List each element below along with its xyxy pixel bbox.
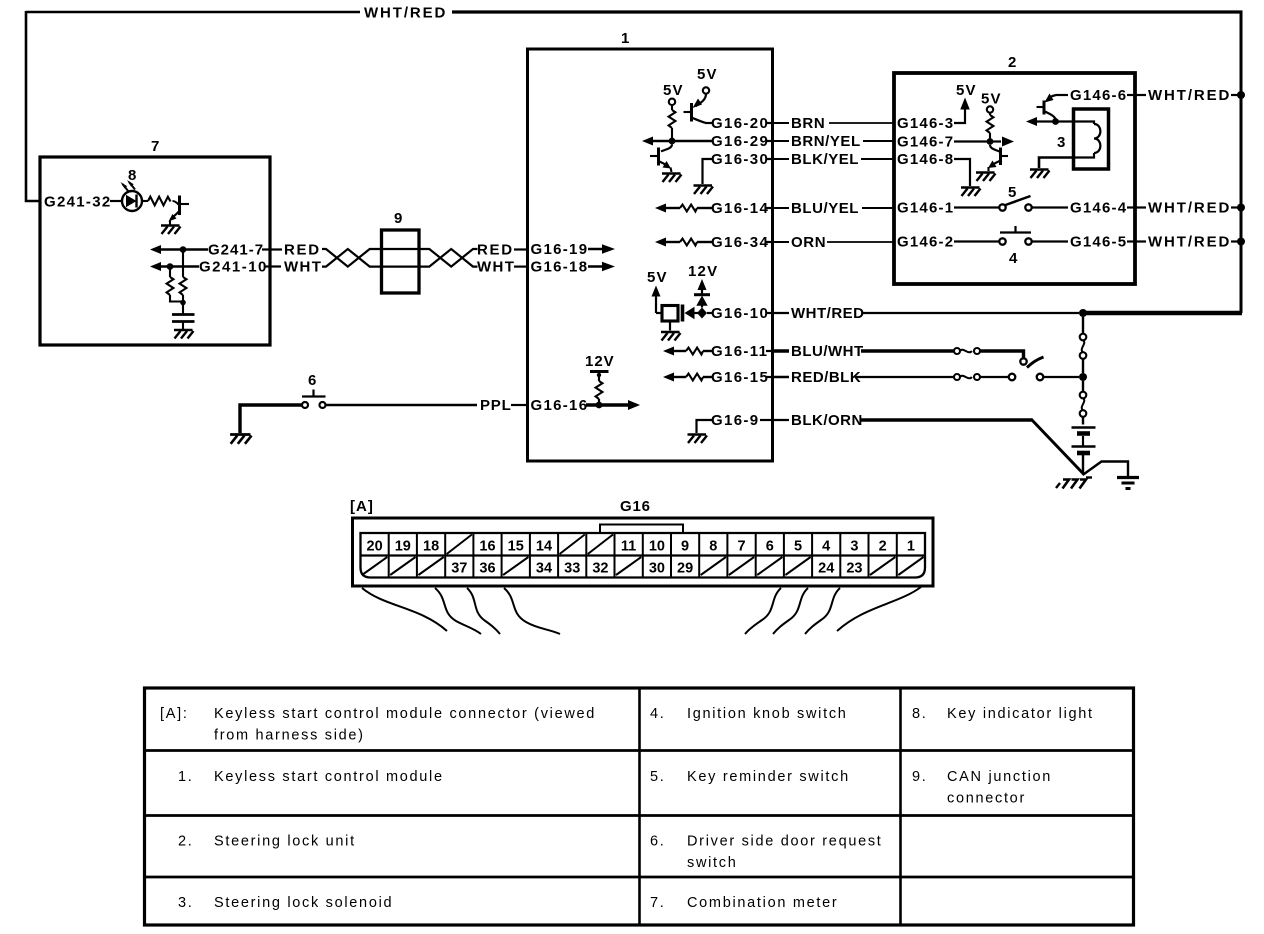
pin G16-20 xyxy=(705,122,712,124)
svg-text:9: 9 xyxy=(394,210,403,227)
svg-text:19: 19 xyxy=(395,539,411,555)
junction diamond G16-10 xyxy=(697,308,707,319)
wire BLK/ORN xyxy=(772,419,789,421)
steering lock solenoid box xyxy=(1074,109,1109,169)
junction dot bus (G146-5) xyxy=(1237,238,1245,246)
svg-text:7: 7 xyxy=(151,138,160,155)
transistor Q-meter xyxy=(173,201,179,205)
capacitor C1 (meter) xyxy=(182,303,184,315)
fusible link F2 xyxy=(1082,381,1084,392)
wire ORN xyxy=(772,241,789,243)
svg-text:37: 37 xyxy=(451,561,467,577)
svg-text:2.: 2. xyxy=(178,834,194,850)
svg-text:34: 34 xyxy=(536,561,552,577)
wire right-edge vertical bus WHT/RED xyxy=(1240,11,1243,314)
pin G16-34 xyxy=(655,238,666,247)
junction dot G241-10 xyxy=(167,263,174,270)
CAN junction connector box 9 xyxy=(382,230,420,293)
resistor R5 (G146-7 pullup) xyxy=(987,115,994,133)
ignition knob switch contact a xyxy=(1020,358,1026,364)
svg-text:G16-34: G16-34 xyxy=(711,234,769,251)
pin G241-7 arrow xyxy=(150,245,161,254)
svg-text:G241-10: G241-10 xyxy=(199,259,268,276)
svg-text:5V: 5V xyxy=(697,66,718,83)
svg-text:3.: 3. xyxy=(178,895,194,911)
wire WHT/RED thick to bus xyxy=(1083,311,1242,315)
svg-text:G16-11: G16-11 xyxy=(711,343,768,360)
svg-text:G16-9: G16-9 xyxy=(711,412,759,429)
wire left drop to combination meter xyxy=(26,11,40,201)
earth ground xyxy=(1117,476,1139,479)
transistor Q-b (G16-29) xyxy=(661,144,672,151)
transistor Q-d (G146-6) xyxy=(1047,95,1057,101)
connector G16 pin grid outline xyxy=(361,533,926,578)
connector G16 row divider xyxy=(361,554,926,556)
svg-text:8: 8 xyxy=(128,167,137,184)
wire RED/BLK to switch xyxy=(980,376,1009,378)
diode D2 (G16-10) xyxy=(681,305,685,322)
pin G16-14 xyxy=(655,204,666,213)
svg-text:PPL: PPL xyxy=(480,397,512,414)
svg-text:RED: RED xyxy=(284,242,321,259)
junction dot G146-7 xyxy=(987,138,994,145)
connector G16 harness wires xyxy=(362,588,447,631)
zener diode D3 (12V clamp) xyxy=(701,306,703,308)
ground (G16-30) xyxy=(694,186,714,195)
wire BLK/ORN diagonal to ground xyxy=(1031,419,1085,475)
junction dot bus (G146-4) xyxy=(1237,204,1245,212)
wire BRN/YEL xyxy=(772,140,789,142)
ground (photocoupler) xyxy=(669,321,671,331)
svg-text:30: 30 xyxy=(649,561,665,577)
ground (meter capacitor) xyxy=(174,330,194,339)
svg-text:WHT/RED: WHT/RED xyxy=(1148,200,1231,217)
svg-text:5V: 5V xyxy=(663,82,684,99)
svg-text:G16-29: G16-29 xyxy=(711,133,769,150)
svg-text:G16-18: G16-18 xyxy=(531,259,589,276)
svg-text:Combination meter: Combination meter xyxy=(687,895,838,911)
svg-text:3: 3 xyxy=(1057,134,1066,151)
svg-text:ORN: ORN xyxy=(791,234,826,251)
pin G146-6 xyxy=(1056,94,1068,96)
svg-text:G16: G16 xyxy=(620,498,651,515)
svg-text:15: 15 xyxy=(508,539,524,555)
svg-text:1: 1 xyxy=(621,30,630,47)
connector G16 outer shell xyxy=(353,518,934,586)
svg-text:BLK/YEL: BLK/YEL xyxy=(791,151,859,168)
ground (switch 6) xyxy=(230,435,251,444)
svg-text:RED/BLK: RED/BLK xyxy=(791,369,861,386)
svg-text:6.: 6. xyxy=(650,834,666,850)
svg-text:32: 32 xyxy=(592,561,608,577)
ground node (battery) xyxy=(1084,462,1128,478)
svg-text:Ignition knob switch: Ignition knob switch xyxy=(687,706,848,722)
resistor R3 (G16-16 pullup) xyxy=(596,381,603,399)
svg-text:12V: 12V xyxy=(585,353,615,370)
svg-text:Keyless start control module: Keyless start control module xyxy=(214,769,444,785)
key-off contact c xyxy=(1037,374,1044,381)
svg-text:G16-19: G16-19 xyxy=(531,241,589,258)
svg-text:12V: 12V xyxy=(688,263,718,280)
ground (solenoid) xyxy=(1030,170,1050,179)
svg-text:G16-10: G16-10 xyxy=(711,305,769,322)
svg-text:5V: 5V xyxy=(956,82,977,99)
svg-text:10: 10 xyxy=(649,539,665,555)
wire twisted pair WHT (lower) xyxy=(322,249,478,267)
solenoid feed arrow xyxy=(1026,117,1037,126)
ground (Q-b emitter) xyxy=(662,174,682,183)
key-off contact b xyxy=(1009,374,1016,381)
svg-text:G146-1: G146-1 xyxy=(897,200,954,217)
resistor R4 (G16-29 pullup) xyxy=(669,110,676,128)
svg-text:G146-4: G146-4 xyxy=(1070,200,1127,217)
svg-text:G146-8: G146-8 xyxy=(897,151,954,168)
pin G16-29 arrow xyxy=(642,137,653,146)
fusible link F1 xyxy=(1082,317,1084,334)
svg-text:24: 24 xyxy=(818,561,834,577)
svg-text:4: 4 xyxy=(1009,250,1018,267)
svg-text:G241-32: G241-32 xyxy=(44,194,111,211)
svg-text:18: 18 xyxy=(423,539,439,555)
junction dot G16-16 xyxy=(596,402,603,409)
connector G16 hatched cells bottom row xyxy=(362,557,387,575)
pin G241-10 arrow xyxy=(150,262,161,271)
pin G16-15 xyxy=(663,373,674,382)
junction dot meter RC xyxy=(180,300,186,306)
wire solenoid to ground xyxy=(1039,158,1074,169)
svg-text:WHT/RED: WHT/RED xyxy=(364,5,447,22)
svg-text:5: 5 xyxy=(1008,184,1017,201)
switch 6 contacts xyxy=(302,402,308,408)
svg-text:1.: 1. xyxy=(178,769,194,785)
junction dot RED/BLK bus xyxy=(1079,373,1087,381)
svg-text:33: 33 xyxy=(564,561,580,577)
svg-text:switch: switch xyxy=(687,855,738,871)
battery B1 xyxy=(1072,426,1096,429)
svg-text:9: 9 xyxy=(681,539,689,555)
svg-text:11: 11 xyxy=(621,539,636,555)
junction dot G16-29 xyxy=(669,138,676,145)
svg-text:[A]:: [A]: xyxy=(160,706,189,722)
svg-text:G16-16: G16-16 xyxy=(531,397,589,414)
svg-text:1: 1 xyxy=(907,539,915,555)
svg-text:G146-6: G146-6 xyxy=(1070,87,1127,104)
svg-text:4.: 4. xyxy=(650,706,666,722)
svg-text:7: 7 xyxy=(737,539,745,555)
wire BLU/YEL xyxy=(772,207,789,209)
wire BRN xyxy=(772,122,789,124)
ground (Q-c emitter) xyxy=(976,173,996,182)
wire switch 6 to PPL xyxy=(326,404,478,407)
svg-text:BLK/ORN: BLK/ORN xyxy=(791,412,863,429)
svg-text:Steering lock unit: Steering lock unit xyxy=(214,834,356,850)
svg-text:Driver side door request: Driver side door request xyxy=(687,834,883,850)
svg-text:Steering lock solenoid: Steering lock solenoid xyxy=(214,895,393,911)
wire WHT/RED (G16-10) xyxy=(772,312,789,314)
resistor R-meter (LED series) xyxy=(142,200,148,202)
svg-text:G16-14: G16-14 xyxy=(711,200,769,217)
svg-text:WHT/RED: WHT/RED xyxy=(791,305,865,322)
svg-text:G146-2: G146-2 xyxy=(897,234,954,251)
svg-text:16: 16 xyxy=(479,539,495,555)
svg-text:23: 23 xyxy=(846,561,862,577)
svg-text:Key reminder switch: Key reminder switch xyxy=(687,769,850,785)
wire twisted pair RED (upper) xyxy=(322,249,478,267)
svg-text:6: 6 xyxy=(766,539,774,555)
pin G16-10 xyxy=(707,312,712,314)
svg-text:Keyless start control module c: Keyless start control module connector (… xyxy=(214,706,596,722)
LED D1 key indicator light xyxy=(122,191,142,211)
combination meter box 7 xyxy=(40,157,270,345)
svg-text:2: 2 xyxy=(1008,54,1017,71)
svg-text:RED: RED xyxy=(477,242,514,259)
junction dot bus (G146-6) xyxy=(1237,91,1245,99)
svg-text:29: 29 xyxy=(677,561,693,577)
connector G16 hatched cells top row xyxy=(447,535,472,555)
svg-text:BRN: BRN xyxy=(791,115,825,132)
transistor Q-c (G146-7) xyxy=(990,145,1001,152)
ignition knob switch 4 xyxy=(1014,226,1016,233)
svg-text:3: 3 xyxy=(850,539,858,555)
junction dot G241-7 xyxy=(180,246,187,253)
svg-text:G16-20: G16-20 xyxy=(711,115,769,132)
pin G146-5 xyxy=(1032,240,1068,242)
svg-text:14: 14 xyxy=(536,539,552,555)
wire WHT/RED (G146-4) xyxy=(1135,206,1146,208)
svg-text:connector: connector xyxy=(947,791,1026,807)
steering lock unit box 2 xyxy=(894,73,1135,284)
svg-text:from harness side): from harness side) xyxy=(214,728,365,744)
resistor R2 (meter) xyxy=(169,267,171,278)
svg-text:6: 6 xyxy=(308,372,317,389)
svg-text:G146-7: G146-7 xyxy=(897,134,954,151)
wire WHT/RED (G146-6) xyxy=(1135,94,1146,96)
svg-text:Key indicator light: Key indicator light xyxy=(947,706,1094,722)
ground (G16-9) xyxy=(688,435,708,444)
ground (G146-8) xyxy=(961,188,981,197)
wire G241-32 to LED xyxy=(110,200,122,202)
legend table frame xyxy=(145,688,1134,925)
connector G16 cell dividers xyxy=(388,533,390,578)
svg-text:8: 8 xyxy=(709,539,717,555)
key reminder switch 5 xyxy=(999,204,1005,210)
legend table row dividers xyxy=(145,749,1134,752)
svg-text:BRN/YEL: BRN/YEL xyxy=(791,133,861,150)
wire switch 6 to ground xyxy=(240,405,302,433)
svg-text:2: 2 xyxy=(879,539,887,555)
photocoupler U1 (G16-10) xyxy=(656,312,662,314)
svg-text:G16-15: G16-15 xyxy=(711,369,769,386)
wire RED/BLK xyxy=(772,376,789,378)
svg-text:5V: 5V xyxy=(647,269,668,286)
svg-text:9.: 9. xyxy=(912,769,928,785)
svg-text:7.: 7. xyxy=(650,895,666,911)
svg-text:4: 4 xyxy=(822,539,830,555)
svg-text:36: 36 xyxy=(479,561,495,577)
svg-text:5.: 5. xyxy=(650,769,666,785)
wire BLK/YEL xyxy=(772,158,789,160)
inline connector (BLU/WHT) xyxy=(954,348,960,354)
svg-text:8.: 8. xyxy=(912,706,928,722)
legend table column dividers xyxy=(638,688,641,925)
svg-text:G241-7: G241-7 xyxy=(208,242,264,259)
svg-text:G146-5: G146-5 xyxy=(1070,234,1127,251)
inline connector (RED/BLK) xyxy=(954,374,960,380)
wire G146-3 to 5V xyxy=(954,107,965,123)
svg-text:WHT/RED: WHT/RED xyxy=(1148,87,1231,104)
svg-text:BLU/WHT: BLU/WHT xyxy=(791,343,864,360)
wire switch to bus junction xyxy=(1044,376,1080,378)
wire WHT/RED top-right segment xyxy=(452,10,1243,13)
ground (meter transistor) xyxy=(161,226,181,235)
svg-text:WHT: WHT xyxy=(284,259,322,276)
svg-text:WHT: WHT xyxy=(477,259,515,276)
solenoid coil L1 xyxy=(1074,122,1095,125)
svg-text:5: 5 xyxy=(794,539,802,555)
switch 6 actuator xyxy=(312,390,314,397)
svg-text:G146-3: G146-3 xyxy=(897,115,954,132)
connector G16 latch tab xyxy=(600,525,683,534)
svg-text:CAN junction: CAN junction xyxy=(947,769,1052,785)
svg-text:G16-30: G16-30 xyxy=(711,151,769,168)
wire BLU/WHT xyxy=(772,349,789,352)
svg-text:5V: 5V xyxy=(981,91,1002,108)
svg-text:WHT/RED: WHT/RED xyxy=(1148,234,1231,251)
keyless start control module box 1 xyxy=(528,49,773,461)
wire BLU/WHT to ignition knob switch xyxy=(980,351,1024,358)
junction dot G146-6 xyxy=(1052,118,1059,125)
pin G146-4 xyxy=(1032,206,1068,208)
junction dot WHT/RED xyxy=(1079,309,1087,317)
ignition knob switch lever xyxy=(1027,357,1044,368)
svg-text:20: 20 xyxy=(367,539,383,555)
svg-text:[A]: [A] xyxy=(350,498,374,515)
svg-text:BLU/YEL: BLU/YEL xyxy=(791,200,859,217)
transistor Q-a (G16-20) xyxy=(696,94,707,107)
wire WHT/RED top-left segment xyxy=(26,11,360,14)
pin G16-11 xyxy=(663,347,674,356)
resistor R1 (meter) xyxy=(182,250,184,278)
wire WHT/RED (G146-5) xyxy=(1135,240,1146,242)
